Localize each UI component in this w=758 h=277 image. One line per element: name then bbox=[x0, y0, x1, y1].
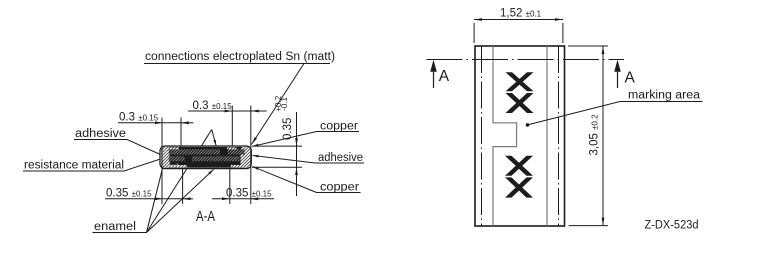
dimension 0.3 ±0.15 (top-right) bbox=[188, 100, 267, 146]
svg-text:adhesive: adhesive bbox=[318, 152, 363, 164]
terminal tangent line right (dash-dot) bbox=[558, 46, 560, 226]
terminal tangent line left (dash-dot) bbox=[481, 46, 483, 226]
svg-text:0.35+0.2-0.1: 0.35+0.2-0.1 bbox=[274, 95, 294, 140]
horizontal centerline (section cut A-A) bbox=[427, 59, 625, 61]
resistance layer stripe (lower hatched) bbox=[169, 156, 185, 161]
dimension 3,05 ±0.2 (right, vertical) bbox=[568, 46, 608, 226]
label: adhesive (left) bbox=[74, 128, 163, 156]
leader: enamel through body, bent over top bbox=[147, 169, 188, 233]
dimension 1,52 ±0.1 (top) bbox=[474, 8, 563, 44]
svg-text:resistance material: resistance material bbox=[24, 160, 124, 172]
section arrow right with letter A bbox=[614, 60, 635, 88]
leader: Sn label to right terminal top bbox=[252, 64, 305, 145]
svg-text:A-A: A-A bbox=[196, 209, 215, 225]
dimension 0.35 ±0.15 (bottom-left) bbox=[105, 169, 193, 205]
small layer mark bottom-left bbox=[169, 164, 178, 166]
svg-text:0.35 ±0.15: 0.35 ±0.15 bbox=[106, 188, 152, 200]
terminal cap right (hatched) bbox=[241, 147, 251, 168]
svg-text:A: A bbox=[625, 70, 636, 87]
dimension 0.35 +0.2/-0.1 (vertical, right of body) bbox=[252, 95, 302, 196]
svg-text:A: A bbox=[439, 68, 450, 85]
marking area boundary left with notch bbox=[493, 46, 517, 226]
leader: enamel to bottom surface bbox=[147, 170, 214, 233]
extension line right (x=250.8) bbox=[250, 106, 252, 205]
leader: enamel to bottom-left corner bbox=[147, 163, 165, 233]
svg-text:enamel: enamel bbox=[94, 221, 136, 233]
svg-text:1,52 ±0.1: 1,52 ±0.1 bbox=[500, 8, 542, 20]
label: copper (bottom right) bbox=[253, 167, 361, 194]
svg-text:adhesive: adhesive bbox=[75, 128, 126, 140]
label: marking area bbox=[526, 90, 703, 127]
label: resistance material bbox=[23, 159, 162, 172]
label: connections electroplated Sn (matt) bbox=[144, 51, 335, 64]
svg-text:3,05 ±0.2: 3,05 ±0.2 bbox=[589, 114, 601, 156]
marking XX (upper) bbox=[506, 72, 534, 113]
dimension 0.35 ±0.15 (bottom-right) bbox=[212, 169, 274, 205]
label: enamel bbox=[93, 221, 147, 233]
terminal cap left (hatched) bbox=[161, 147, 170, 168]
bottom terminal wrap hatches bbox=[167, 165, 187, 167]
marking XX (lower) bbox=[505, 156, 533, 198]
svg-text:0.3 ±0.15: 0.3 ±0.15 bbox=[119, 112, 159, 124]
copper layer stripe (upper hatched) bbox=[169, 149, 220, 154]
svg-text:copper: copper bbox=[320, 121, 358, 133]
svg-text:0.35 ±0.15: 0.35 ±0.15 bbox=[226, 188, 272, 200]
section arrow left with letter A bbox=[430, 60, 450, 88]
svg-text:Z-DX-523d: Z-DX-523d bbox=[645, 220, 699, 232]
component body fill bbox=[161, 147, 250, 168]
extension line left (x=162) bbox=[161, 118, 163, 205]
svg-text:0.3 ±0.15: 0.3 ±0.15 bbox=[193, 100, 233, 112]
dimension 0.3 ±0.15 (top-left) bbox=[118, 112, 193, 147]
label: adhesive (right) bbox=[253, 152, 365, 164]
marking area boundary right bbox=[546, 46, 548, 226]
svg-text:connections electroplated Sn (: connections electroplated Sn (matt) bbox=[145, 51, 335, 63]
label: copper (top right) bbox=[253, 121, 360, 147]
svg-text:copper: copper bbox=[320, 182, 359, 194]
body rectangle (top view) bbox=[475, 46, 565, 226]
top terminal wrap hatches bbox=[165, 147, 179, 149]
svg-text:marking area: marking area bbox=[628, 90, 701, 102]
component body outline (enamel coat) bbox=[160, 146, 251, 169]
